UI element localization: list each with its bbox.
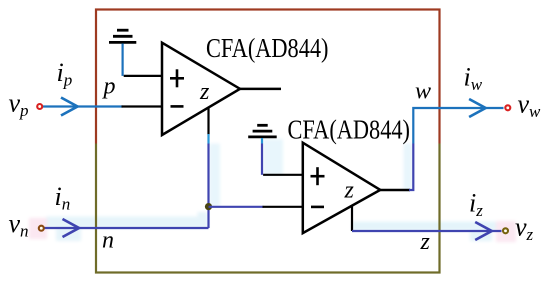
junction node dot [205,203,212,210]
wire: G2 ground wire blue part [261,138,263,144]
arrow i_n [63,219,80,237]
pin: U2 - input pin (black) [263,206,303,208]
svg-text:CFA(AD844): CFA(AD844) [288,115,411,145]
op-amp U1 plus sign [170,69,184,87]
wire: G2 ground wire navy part down to U2 + pin [261,144,263,175]
wire: n net from terminal to riser (navy) [43,227,209,229]
enclosure box border: olive bottom half [96,10,440,273]
pin: U2 output pin to corner (black) [380,189,410,192]
ground symbol G1 [109,30,136,42]
wire: z net riser navy part down to n wire [207,144,209,229]
pink halo at v_n terminal [29,218,47,239]
terminal v_z circle [503,228,508,233]
net highlight glow on w riser lower part [404,144,413,191]
terminal v_w circle [505,105,510,110]
net highlight glow on ground2 wire [263,139,283,175]
op-amp U2 minus sign [311,206,324,209]
terminal v_p circle [37,104,42,109]
net highlight glow on vertical riser [198,212,208,228]
wire: w net riser blue part and horizontal to terminal [413,108,503,144]
svg-text:p: p [102,74,116,100]
svg-text:z: z [199,79,210,105]
pin: U1 - input pin (black) [122,105,163,107]
op-amp U1 triangle [162,43,240,135]
arrow i_z [475,222,492,240]
wire: p net from terminal to pin (blue) [41,105,123,107]
op-amp U2 triangle [303,143,381,233]
wire: G1 ground wire down to op-amp U1 + pin [121,44,123,76]
net highlight glow on n wire [46,217,208,229]
pin: U1 + input pin (black) [124,75,162,77]
net highlight glow on z output wire [352,222,496,231]
pin: U2 z pin down (black) [351,206,353,231]
terminal v_n circle [39,226,44,231]
pin: U1 z pin going down (black) [207,108,209,135]
svg-text:CFA(AD844): CFA(AD844) [206,33,329,63]
arrow i_p [61,98,78,116]
svg-text:n: n [102,228,114,254]
wire: z net riser blue part [207,134,209,144]
svg-text:w: w [415,79,431,105]
ground symbol G2 [248,125,277,137]
wire: junction to U2 - input (navy) [209,206,264,208]
op-amp U1 minus sign [171,105,184,108]
op-amp U2 plus sign [311,167,325,185]
wire: w net elbow navy part [409,144,413,191]
svg-text:z: z [344,178,355,204]
pink halo at v_z terminal [496,221,516,242]
wire: z net from U2 z pin to terminal (navy) [352,230,502,232]
pin: U1 output stub (w pin, unconnected) [240,88,281,91]
arrow i_w [469,99,486,117]
svg-text:z: z [420,229,431,255]
pin: U2 + input pin (black) [263,174,303,176]
enclosure box border: brown top half [96,10,440,273]
